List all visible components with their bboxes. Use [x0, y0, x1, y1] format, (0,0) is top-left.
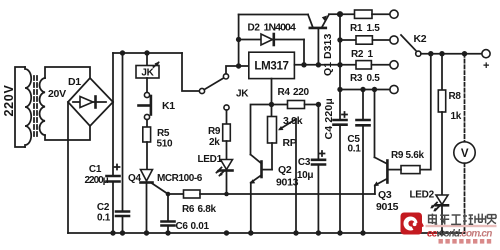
- junction R4 right: [316, 102, 321, 107]
- LED1: [216, 160, 233, 195]
- junction C5 top: [360, 87, 365, 92]
- svg-text:Q3: Q3: [378, 189, 392, 201]
- resistor R5: [143, 120, 151, 170]
- resistor R8: [438, 54, 445, 195]
- transistor Q2 9013: [250, 155, 272, 234]
- svg-text:3.9k: 3.9k: [283, 115, 303, 127]
- svg-text:0.01: 0.01: [191, 221, 210, 232]
- capacitor C2: [116, 53, 129, 233]
- svg-text:1k: 1k: [451, 111, 462, 122]
- transformer secondary winding: [40, 78, 45, 135]
- transformer primary winding: [25, 67, 31, 147]
- svg-text:1N4004: 1N4004: [264, 22, 296, 34]
- junction LED1 cathode: [224, 192, 229, 197]
- potentiometer RP: [268, 105, 297, 170]
- svg-text:5.6k: 5.6k: [406, 150, 425, 161]
- bottom rail: [68, 232, 465, 234]
- wire bus to terminal 4: [340, 89, 390, 91]
- svg-text:JK: JK: [141, 68, 154, 79]
- terminal 4: [390, 85, 398, 93]
- junction collector output: [316, 62, 321, 67]
- junction C6 bottom: [165, 230, 170, 235]
- junction R8 top: [439, 51, 444, 56]
- svg-text:LED1: LED1: [198, 154, 223, 165]
- svg-text:D1: D1: [68, 76, 81, 88]
- svg-text:MCR100-6: MCR100-6: [157, 173, 203, 184]
- junction C4 bottom: [337, 230, 342, 235]
- junction LM317 input: [236, 63, 241, 68]
- svg-text:C2: C2: [97, 202, 110, 213]
- svg-text:RP: RP: [283, 137, 297, 149]
- svg-text:C1: C1: [89, 164, 102, 175]
- junction bus bottom: [337, 87, 342, 92]
- svg-text:+: +: [483, 60, 489, 72]
- svg-text:K2: K2: [414, 33, 427, 45]
- LED2: [430, 195, 448, 233]
- wire RP wiper down: [295, 119, 297, 233]
- terminal plus: [482, 50, 490, 58]
- svg-text:LED2: LED2: [410, 190, 435, 201]
- svg-text:10μ: 10μ: [297, 170, 314, 181]
- svg-text:1: 1: [368, 49, 374, 60]
- wire R9b riser: [420, 54, 431, 170]
- svg-text:9013: 9013: [276, 177, 299, 189]
- svg-text:LM317: LM317: [254, 61, 288, 73]
- junction emitter bus: [337, 11, 343, 17]
- terminal 1: [390, 10, 398, 18]
- svg-text:9015: 9015: [376, 201, 399, 213]
- junction C1 bottom: [110, 230, 115, 235]
- terminal 2: [390, 36, 398, 44]
- transformer core: [34, 76, 37, 138]
- wire bridge positive riser: [112, 53, 114, 102]
- svg-text:R1: R1: [350, 23, 363, 34]
- resistor R1: [340, 10, 390, 18]
- resistor R3: [340, 61, 390, 69]
- junction D2 anode: [236, 37, 241, 42]
- terminal 3: [390, 61, 398, 69]
- svg-text:20V: 20V: [48, 88, 66, 100]
- junction Q2 emitter: [248, 230, 253, 235]
- capacitor C4: [334, 90, 348, 234]
- svg-text:2k: 2k: [209, 137, 220, 148]
- junction C2 bottom: [120, 230, 125, 235]
- wire riser to base rail: [238, 15, 240, 67]
- junction top rail C2: [120, 50, 125, 55]
- diode D2: [239, 34, 304, 65]
- junction voltmeter top: [462, 51, 467, 56]
- capacitor C1: [107, 102, 120, 233]
- resistor R6: [168, 190, 227, 198]
- svg-text:1.5: 1.5: [367, 23, 381, 34]
- junction LED2 bottom: [439, 230, 444, 235]
- op-amp U1 LM317 box: [249, 52, 295, 78]
- svg-text:220V: 220V: [2, 85, 16, 117]
- voltmeter V: [454, 54, 475, 233]
- svg-text:R5: R5: [157, 128, 170, 139]
- svg-text:V: V: [461, 148, 469, 160]
- svg-text:R4: R4: [278, 87, 291, 98]
- svg-text:510: 510: [157, 139, 174, 150]
- AC input loop: [15, 67, 25, 147]
- svg-text:R8: R8: [449, 91, 462, 102]
- junction LED1 bottom: [224, 230, 229, 235]
- relay contact JK: [199, 74, 229, 110]
- wire secondary bottom to bridge: [45, 126, 90, 140]
- svg-text:0.5: 0.5: [367, 73, 381, 84]
- resistor R2: [340, 36, 390, 44]
- junction bus R3: [337, 62, 342, 67]
- junction Q3 collector riser: [372, 87, 377, 92]
- wire base rail: [239, 14, 308, 16]
- top rail: [113, 52, 182, 54]
- svg-text:Q1 D313: Q1 D313: [322, 34, 334, 76]
- svg-text:K1: K1: [162, 100, 175, 112]
- junction R9b riser: [428, 51, 433, 56]
- svg-text:R9: R9: [391, 150, 404, 161]
- svg-text:C3: C3: [298, 157, 311, 168]
- relay coil JK: [136, 53, 160, 92]
- svg-text:0.1: 0.1: [97, 213, 111, 224]
- svg-text:R2: R2: [351, 49, 364, 60]
- svg-text:Q2: Q2: [278, 164, 292, 176]
- junction C5 bottom: [360, 230, 365, 235]
- svg-text:C4 220μ: C4 220μ: [323, 99, 335, 140]
- svg-text:JK: JK: [236, 89, 249, 100]
- transistor Q3 9015: [374, 90, 388, 195]
- junction C3 bottom: [316, 230, 321, 235]
- positive rail: [421, 53, 482, 55]
- bridge rectifier D1: [68, 78, 113, 126]
- junction gate node: [166, 192, 171, 197]
- svg-text:C6: C6: [176, 221, 189, 232]
- junction D2 cathode: [301, 62, 306, 67]
- svg-text:R9: R9: [208, 126, 221, 137]
- svg-text:D2: D2: [248, 23, 261, 34]
- resistor R9b 5.6k: [389, 166, 420, 174]
- wire contact to LM317 input: [226, 66, 249, 74]
- transistor Q1 D313: [308, 14, 338, 65]
- junction RP wiper bottom: [293, 230, 298, 235]
- wire secondary top to bridge: [45, 67, 90, 78]
- switch K2: [401, 35, 421, 56]
- capacitor C3: [312, 105, 325, 234]
- junction top rail JK: [144, 50, 149, 55]
- wire LM317 adj: [271, 79, 273, 105]
- svg-text:Q4: Q4: [128, 173, 141, 184]
- bus wire: [339, 14, 341, 89]
- svg-text:eeworld.com.cn: eeworld.com.cn: [427, 229, 492, 240]
- svg-text:R3: R3: [350, 73, 363, 84]
- junction bus R2: [337, 37, 342, 42]
- svg-text:0.1: 0.1: [347, 144, 361, 155]
- junction adj node: [269, 102, 274, 107]
- resistor R4: [272, 101, 319, 109]
- svg-text:2200μ: 2200μ: [85, 175, 109, 186]
- wire rail to relay contact: [182, 53, 199, 91]
- svg-text:R6: R6: [182, 204, 195, 215]
- SCR Q4: [141, 170, 169, 234]
- pushbutton K1: [139, 92, 151, 119]
- capacitor C6: [162, 194, 175, 233]
- wire to Q3 emitter: [227, 193, 375, 195]
- svg-text:220: 220: [293, 87, 310, 98]
- wire bridge negative down: [67, 102, 69, 233]
- wire LM317 output: [294, 64, 340, 66]
- svg-text:6.8k: 6.8k: [198, 204, 217, 215]
- resistor R9a 2k: [223, 110, 231, 159]
- capacitor C5: [357, 90, 370, 234]
- wire adj to Q2 collector: [251, 105, 272, 155]
- junction Q4 cathode: [144, 230, 149, 235]
